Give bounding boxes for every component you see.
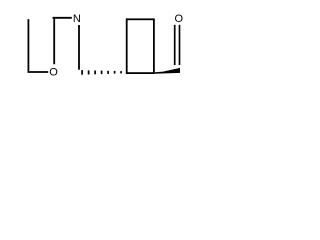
svg-text:O: O	[175, 13, 184, 25]
bond CH2-N	[53, 17, 72, 19]
hashed bond dash 1	[81, 70, 83, 75]
bond N-CH	[78, 25, 80, 70]
hashed bond dash 3	[94, 71, 96, 75]
bond O-CH2	[53, 18, 55, 64]
bond CH2-O	[28, 71, 49, 73]
C=O double bond line left	[174, 25, 176, 65]
C=O double bond line right	[179, 25, 181, 65]
hashed bond dash 4	[101, 71, 103, 75]
hashed bond dash 6	[114, 71, 116, 74]
svg-text:O: O	[49, 67, 58, 79]
bond CH3-CH2 (ethyl)	[27, 19, 29, 72]
hashed bond dash 5	[107, 71, 109, 74]
cyclobutane ring	[127, 19, 154, 73]
bold wedge bond C-CHO	[155, 68, 180, 74]
hashed bond dash 2	[88, 70, 90, 74]
hashed bond dash 7	[120, 71, 122, 73]
svg-text:N: N	[73, 13, 81, 25]
